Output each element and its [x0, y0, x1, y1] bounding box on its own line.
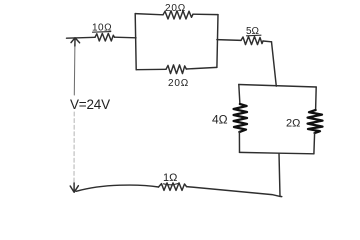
svg-text:20Ω: 20Ω	[165, 3, 186, 14]
svg-text:2Ω: 2Ω	[286, 118, 300, 130]
wire (parallel box top edge, left part)	[135, 14, 163, 15]
wire (right box right edge, upper)	[315, 87, 318, 110]
wire	[67, 36, 96, 39]
wire (right box right edge, lower)	[313, 133, 316, 154]
wire (parallel box bottom edge, right part)	[186, 67, 217, 69]
wire (right box bottom edge)	[240, 152, 314, 153]
svg-text:1Ω: 1Ω	[163, 172, 177, 184]
voltage source arrow (bottom, pointing down)	[70, 183, 78, 192]
resistor 2Ω	[286, 110, 323, 133]
wire	[263, 40, 272, 43]
resistor 1Ω	[159, 172, 187, 190]
wire (parallel box top edge, right part)	[193, 13, 218, 15]
wire (right box top edge)	[239, 85, 316, 88]
wire (right box left edge, upper)	[239, 85, 240, 105]
resistor 5Ω	[241, 26, 263, 45]
wire (parallel box left edge)	[135, 14, 136, 70]
wire (vertical down to bottom wire)	[279, 153, 280, 196]
wire (parallel box right edge)	[217, 15, 218, 68]
wire	[217, 39, 241, 42]
wire (vertical down to right box)	[272, 42, 277, 86]
resistor 20Ω (top)	[163, 3, 193, 19]
voltage source V (left branch line)	[73, 44, 76, 95]
resistor 4Ω	[212, 104, 247, 132]
wire (right box left edge, lower)	[238, 132, 240, 152]
wire (parallel box bottom edge, left part)	[136, 68, 166, 70]
resistor 20Ω (bottom)	[166, 65, 189, 89]
svg-text:4Ω: 4Ω	[212, 113, 228, 127]
resistor 10Ω	[92, 23, 115, 42]
svg-text:V=24V: V=24V	[70, 97, 110, 112]
wire (bottom, right part)	[187, 187, 282, 197]
voltage source arrow (top, pointing up)	[71, 38, 80, 46]
wire (bottom, left part)	[76, 185, 158, 191]
wire	[115, 36, 137, 39]
svg-text:20Ω: 20Ω	[168, 78, 189, 89]
